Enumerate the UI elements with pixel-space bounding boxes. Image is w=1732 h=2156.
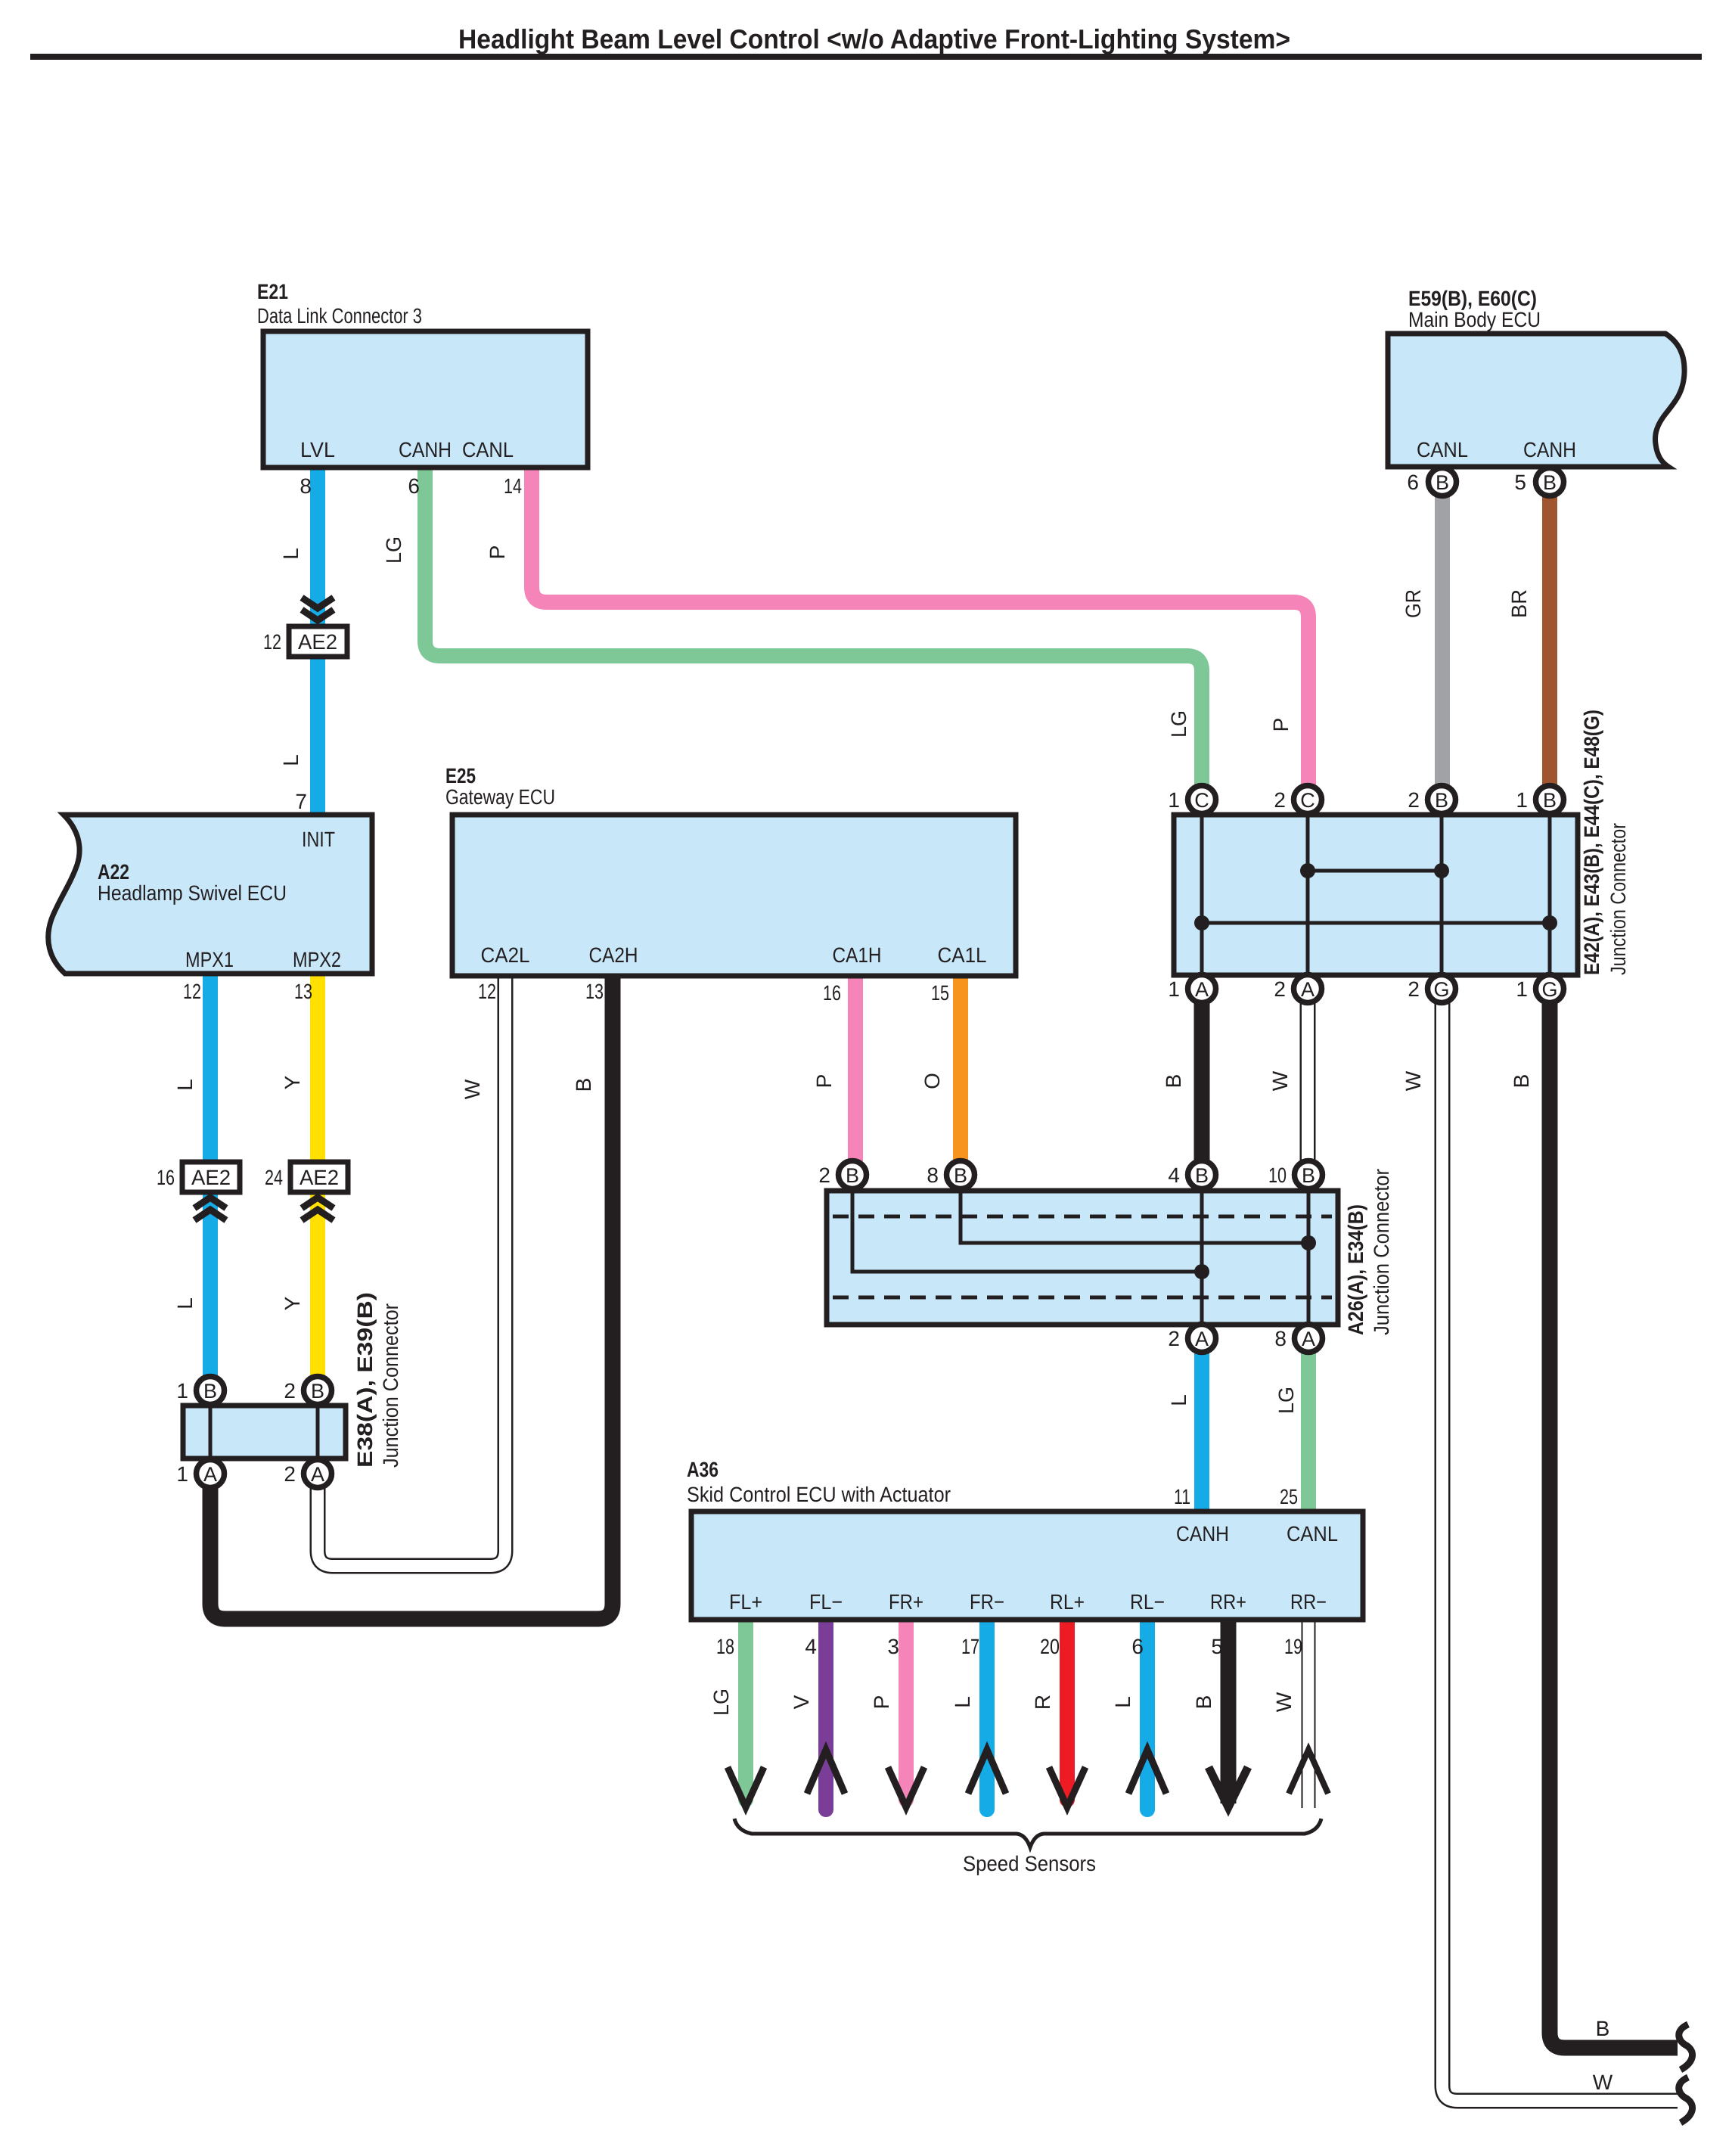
svg-text:CA1H: CA1H [833, 943, 882, 967]
svg-text:L: L [279, 548, 303, 560]
svg-text:L: L [173, 1079, 197, 1091]
svg-text:RL−: RL− [1130, 1590, 1165, 1614]
svg-text:2: 2 [1408, 977, 1420, 1001]
svg-text:1: 1 [1516, 788, 1528, 812]
svg-text:E21: E21 [257, 280, 288, 303]
svg-text:6: 6 [1131, 1635, 1144, 1658]
svg-text:16: 16 [823, 981, 841, 1005]
svg-text:B: B [1195, 1164, 1209, 1187]
pin 2 circle A E42 bottom [1274, 975, 1321, 1003]
svg-text:5: 5 [1514, 471, 1526, 494]
pin 1 circle B E38 [176, 1377, 224, 1405]
svg-text:A26(A), E34(B): A26(A), E34(B) [1344, 1204, 1367, 1335]
svg-text:E38(A), E39(B): E38(A), E39(B) [353, 1292, 377, 1468]
connector E25 Gateway ECU [445, 764, 1016, 976]
svg-text:12: 12 [263, 630, 281, 654]
svg-text:A: A [1195, 978, 1209, 1001]
svg-text:P: P [486, 545, 509, 560]
svg-text:GR: GR [1401, 589, 1425, 618]
svg-text:12: 12 [183, 980, 201, 1003]
svg-text:B: B [1192, 1695, 1215, 1710]
wire L blue A36 FR- [979, 1619, 995, 1810]
wire V purple A36 FL- [818, 1619, 833, 1810]
wire LG green A26 8(A) to A36 CANL pin 25 [1301, 1352, 1316, 1513]
svg-text:O: O [920, 1073, 944, 1089]
svg-text:CANL: CANL [462, 438, 514, 461]
arrow down RR+ [1209, 1767, 1248, 1807]
pin 8 circle A A26 bottom [1274, 1325, 1322, 1353]
arrow up FL- [807, 1750, 845, 1794]
svg-text:17: 17 [961, 1635, 979, 1658]
svg-text:2: 2 [1408, 788, 1420, 812]
pin 4 circle B A26 [1168, 1161, 1215, 1189]
wire L blue A26 2(A) to A36 CANH pin 11 [1194, 1352, 1209, 1513]
svg-text:E25: E25 [445, 764, 476, 788]
svg-text:A: A [1302, 1328, 1315, 1350]
svg-text:B: B [203, 1380, 217, 1403]
pin 6 circle B Main Body ECU CANL [1407, 468, 1456, 496]
svg-text:2: 2 [284, 1462, 296, 1486]
svg-text:AE2: AE2 [298, 630, 337, 654]
svg-text:W: W [1272, 1692, 1296, 1712]
svg-text:RR+: RR+ [1210, 1590, 1246, 1614]
svg-text:BR: BR [1507, 589, 1531, 618]
svg-text:10: 10 [1268, 1163, 1287, 1187]
wire B black A36 RR+ [1221, 1619, 1237, 1803]
svg-text:FR−: FR− [970, 1590, 1004, 1614]
svg-text:L: L [951, 1696, 974, 1708]
svg-text:L: L [279, 754, 303, 766]
arrow down RL+ [1049, 1767, 1085, 1807]
svg-text:1: 1 [1168, 788, 1180, 812]
svg-text:13: 13 [294, 980, 312, 1003]
svg-text:A: A [311, 1463, 324, 1486]
connector AE2 pin 12 [263, 598, 347, 657]
svg-text:B: B [1435, 789, 1448, 812]
svg-text:CANL: CANL [1417, 438, 1468, 461]
svg-text:A22: A22 [98, 860, 129, 884]
svg-text:W: W [461, 1079, 484, 1099]
svg-text:8: 8 [927, 1163, 939, 1187]
pin 2 circle A E38 bottom [284, 1460, 331, 1488]
pin 2 circle B E42 [1408, 786, 1455, 814]
svg-text:E59(B), E60(C): E59(B), E60(C) [1408, 287, 1537, 310]
svg-text:Headlight Beam Level Control <: Headlight Beam Level Control <w/o Adapti… [458, 23, 1290, 54]
junction connector E38(A) E39(B) [183, 1292, 402, 1468]
svg-text:Y: Y [281, 1075, 304, 1089]
svg-text:2: 2 [1274, 977, 1286, 1001]
connector A36 Skid Control ECU with Actuator [687, 1458, 1363, 1620]
connector A22 Headlamp Swivel ECU [48, 815, 372, 974]
svg-text:6: 6 [408, 474, 420, 498]
wire LG green E21 CANH to E42 1(C) [425, 466, 1202, 786]
svg-text:P: P [870, 1695, 893, 1710]
svg-text:Headlamp Swivel ECU: Headlamp Swivel ECU [98, 881, 287, 905]
svg-text:A: A [1301, 978, 1315, 1001]
svg-text:12: 12 [478, 980, 496, 1003]
wire L blue A36 RL- [1140, 1619, 1155, 1810]
svg-text:20: 20 [1040, 1635, 1060, 1658]
svg-text:FL−: FL− [809, 1590, 843, 1614]
wire P pink E21 CANL to E42 2(C) [532, 466, 1308, 786]
wire L blue A22 MPX1 to E38 1(B) [203, 973, 218, 1377]
svg-text:CANL: CANL [1287, 1522, 1338, 1546]
svg-text:Gateway ECU: Gateway ECU [445, 785, 555, 809]
pin 2 circle B A26 [818, 1161, 866, 1189]
junction connector A26(A) E34(B) [827, 1169, 1393, 1335]
svg-text:A: A [1195, 1328, 1209, 1350]
wire W white A36 RR- [1302, 1619, 1316, 1808]
svg-text:G: G [1433, 978, 1449, 1001]
wire R red A36 RL+ [1060, 1619, 1075, 1800]
svg-text:FR+: FR+ [889, 1590, 923, 1614]
svg-text:LVL: LVL [300, 438, 335, 461]
svg-text:A36: A36 [687, 1458, 719, 1481]
svg-text:Skid Control ECU with Actuator: Skid Control ECU with Actuator [687, 1483, 951, 1506]
wire BR brown Main Body ECU CANH to E42 1(B) [1542, 496, 1557, 786]
svg-text:4: 4 [805, 1635, 817, 1658]
svg-text:1: 1 [176, 1462, 188, 1486]
connector AE2 pin 24 [265, 1162, 348, 1220]
svg-text:FL+: FL+ [729, 1590, 762, 1614]
svg-text:CA2H: CA2H [589, 943, 638, 967]
pin 2 circle A A26 bottom [1168, 1325, 1215, 1353]
svg-text:AE2: AE2 [300, 1166, 339, 1189]
pin 1 circle B E42 [1516, 786, 1563, 814]
svg-text:8: 8 [1274, 1327, 1287, 1350]
svg-text:4: 4 [1168, 1163, 1180, 1187]
pin 8 circle B A26 [927, 1161, 974, 1189]
svg-text:W: W [1268, 1070, 1292, 1091]
svg-text:B: B [1543, 471, 1557, 494]
svg-text:L: L [173, 1297, 197, 1309]
svg-text:B: B [846, 1164, 859, 1187]
svg-text:16: 16 [157, 1166, 175, 1189]
pin 2 circle B E38 [284, 1377, 331, 1405]
svg-text:B: B [1596, 2017, 1610, 2040]
svg-text:CANH: CANH [1523, 438, 1576, 461]
pin 1 circle C E42 [1168, 786, 1215, 814]
arrow up FR- [968, 1750, 1006, 1794]
svg-text:LG: LG [382, 536, 405, 564]
svg-text:Data Link Connector 3: Data Link Connector 3 [257, 304, 422, 328]
wire W white E38 2(A) to E25 CA2L [318, 974, 505, 1566]
svg-text:CANH: CANH [1176, 1522, 1229, 1546]
break symbol B wire [1679, 2024, 1693, 2070]
connector E21 Data Link Connector 3 [257, 280, 588, 468]
wire P pink E25 CA1H to A26 2(B) [848, 974, 863, 1161]
svg-text:INIT: INIT [302, 828, 335, 851]
svg-text:Junction Connector: Junction Connector [1370, 1169, 1393, 1335]
svg-text:5: 5 [1211, 1635, 1223, 1658]
svg-text:W: W [1593, 2071, 1613, 2094]
svg-text:LG: LG [1274, 1387, 1298, 1414]
svg-text:B: B [1302, 1164, 1315, 1187]
pin 1 circle A E38 bottom [176, 1460, 224, 1488]
svg-text:1: 1 [176, 1379, 188, 1403]
brace Speed Sensors [734, 1819, 1321, 1875]
svg-text:RL+: RL+ [1050, 1590, 1085, 1614]
svg-text:P: P [812, 1074, 836, 1089]
svg-text:MPX1: MPX1 [185, 948, 234, 971]
svg-text:B: B [572, 1078, 595, 1092]
svg-text:11: 11 [1174, 1485, 1190, 1508]
svg-text:2: 2 [1168, 1327, 1180, 1350]
svg-text:6: 6 [1407, 471, 1419, 494]
svg-text:P: P [1269, 718, 1293, 732]
wire Y yellow A22 MPX2 to E38 2(B) [310, 973, 325, 1377]
svg-text:14: 14 [504, 474, 522, 498]
connector AE2 pin 16 [157, 1162, 240, 1220]
svg-text:B: B [1436, 471, 1449, 494]
svg-text:1: 1 [1516, 977, 1528, 1001]
svg-text:C: C [1194, 789, 1209, 812]
junction connector E42(A) E43(B) E44(C) E48(G) [1174, 710, 1630, 975]
svg-text:Y: Y [281, 1296, 304, 1310]
arrow down FL+ [728, 1767, 764, 1807]
pin 5 circle B Main Body ECU CANH [1514, 468, 1563, 496]
wire W white E42 2(A) to A26 10(B) [1300, 1002, 1316, 1161]
svg-text:2: 2 [818, 1163, 830, 1187]
svg-text:7: 7 [295, 790, 307, 813]
arrow up RR- [1289, 1750, 1328, 1794]
pin 1 circle G E42 bottom [1516, 975, 1563, 1003]
svg-text:2: 2 [284, 1379, 296, 1403]
svg-text:24: 24 [265, 1166, 283, 1189]
svg-text:B: B [1543, 789, 1557, 812]
wire W white E42 2(G) down and right to break [1442, 1002, 1678, 2101]
svg-text:MPX2: MPX2 [293, 948, 341, 971]
svg-text:Main Body ECU: Main Body ECU [1408, 308, 1541, 331]
connector E59(B) E60(C) Main Body ECU [1388, 287, 1684, 467]
wire O orange E25 CA1L to A26 8(B) [953, 974, 968, 1161]
svg-text:8: 8 [300, 474, 312, 498]
svg-text:AE2: AE2 [191, 1166, 231, 1189]
arrow down FR+ [888, 1767, 924, 1807]
break symbol W wire [1679, 2077, 1693, 2123]
svg-text:G: G [1541, 978, 1557, 1001]
svg-text:B: B [1162, 1074, 1185, 1089]
svg-text:Junction Connector: Junction Connector [379, 1303, 402, 1468]
svg-text:CANH: CANH [399, 438, 452, 461]
svg-text:E42(A), E43(B), E44(C), E48(G): E42(A), E43(B), E44(C), E48(G) [1580, 710, 1603, 975]
svg-text:B: B [954, 1164, 967, 1187]
wire B black E38 1(A) to E25 CA2H [210, 974, 613, 1619]
svg-text:A: A [203, 1463, 217, 1486]
svg-text:B: B [1510, 1074, 1533, 1089]
svg-text:W: W [1401, 1070, 1425, 1091]
wire B black E42 1(A) to A26 4(B) [1194, 1002, 1210, 1161]
wire B black E42 1(G) down and right to break [1550, 1002, 1678, 2048]
svg-text:CA2L: CA2L [481, 943, 530, 967]
svg-text:LG: LG [709, 1688, 733, 1716]
svg-text:L: L [1167, 1394, 1190, 1406]
svg-text:2: 2 [1274, 788, 1286, 812]
arrow up RL- [1128, 1750, 1166, 1794]
svg-text:C: C [1300, 789, 1315, 812]
wire P pink A36 FR+ [899, 1619, 914, 1800]
svg-text:V: V [790, 1695, 813, 1709]
svg-text:B: B [311, 1380, 324, 1403]
wire LG green A36 FL+ [738, 1619, 753, 1800]
svg-text:19: 19 [1284, 1635, 1302, 1658]
svg-text:15: 15 [931, 981, 949, 1005]
svg-text:13: 13 [585, 980, 604, 1003]
svg-text:3: 3 [887, 1635, 899, 1658]
svg-text:Junction Connector: Junction Connector [1606, 823, 1630, 975]
wire GR gray Main Body ECU CANL to E42 2(B) [1435, 496, 1450, 786]
svg-text:CA1L: CA1L [938, 943, 987, 967]
pin 2 circle G E42 bottom [1408, 975, 1455, 1003]
svg-text:RR−: RR− [1290, 1590, 1327, 1614]
pin 2 circle C E42 [1274, 786, 1321, 814]
title [30, 23, 1702, 60]
pin 1 circle A E42 bottom [1168, 975, 1215, 1003]
svg-text:25: 25 [1280, 1485, 1298, 1508]
svg-text:1: 1 [1168, 977, 1180, 1001]
svg-text:L: L [1111, 1696, 1134, 1708]
pin 10 circle B A26 [1268, 1161, 1323, 1189]
svg-text:LG: LG [1167, 710, 1190, 738]
svg-text:18: 18 [716, 1635, 734, 1658]
wire L blue E21 LVL to A22 INIT [310, 466, 325, 816]
svg-text:Speed Sensors: Speed Sensors [963, 1852, 1096, 1875]
svg-text:R: R [1031, 1695, 1054, 1710]
